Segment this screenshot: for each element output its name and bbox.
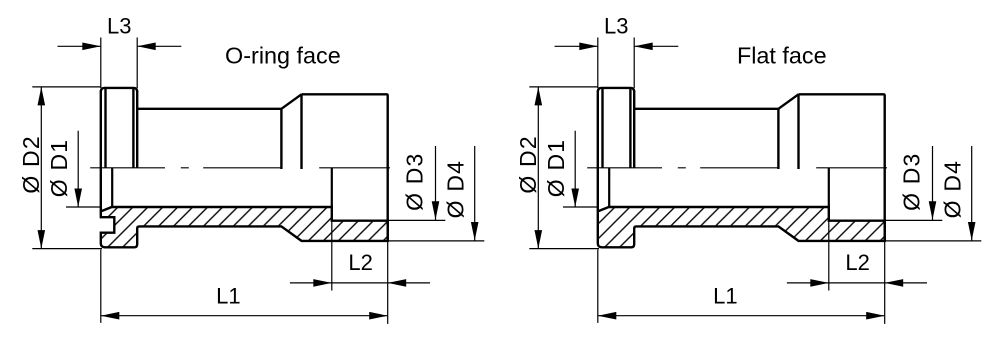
dimension D2 (32, 87, 102, 249)
flange left chamfer edge (601, 88, 603, 168)
svg-text:Ø D2: Ø D2 (515, 135, 541, 193)
neck top line (634, 108, 778, 110)
svg-text:Flat face: Flat face (737, 42, 827, 68)
flange right chamfer edge (132, 88, 134, 168)
svg-text:L3: L3 (604, 14, 628, 39)
flange right chamfer edge (629, 88, 631, 168)
svg-text:Ø D4: Ø D4 (442, 160, 468, 218)
dimension L2 (290, 221, 430, 324)
dimension D3 (388, 146, 445, 220)
svg-text:Ø D3: Ø D3 (898, 152, 924, 210)
dimension D4 (388, 146, 484, 241)
svg-text:L1: L1 (216, 284, 240, 309)
cylinder left edge (797, 94, 799, 169)
taper left edge (777, 109, 779, 169)
svg-text:Ø D3: Ø D3 (401, 152, 427, 210)
centerline (90, 167, 390, 169)
svg-text:L1: L1 (713, 284, 737, 309)
taper diagonal (281, 94, 301, 109)
svg-text:L2: L2 (845, 250, 869, 275)
counterbore circle edge (828, 168, 830, 207)
taper diagonal (778, 94, 798, 109)
counterbore circle edge (331, 168, 333, 207)
dimension L1 (101, 250, 388, 323)
svg-text:Ø D2: Ø D2 (18, 135, 44, 193)
svg-text:L3: L3 (107, 14, 131, 39)
section cut (hatched, flat face no groove) (598, 207, 885, 247)
dimension L1 (598, 250, 885, 323)
bore chamfer circle edge (608, 168, 610, 207)
cylinder top and right end (799, 94, 885, 241)
dimension L3 (58, 38, 182, 89)
cylinder top and right end (302, 94, 388, 241)
svg-text:Ø D4: Ø D4 (939, 160, 965, 218)
dimension D3 (885, 146, 942, 220)
flange left chamfer edge (104, 88, 106, 168)
svg-text:Ø D1: Ø D1 (46, 139, 72, 197)
bore chamfer circle edge (111, 168, 113, 207)
centerline (587, 167, 887, 169)
flange left face (100, 90, 102, 211)
section cut (hatched) (101, 207, 388, 247)
flange left face (597, 90, 599, 211)
neck top line (137, 108, 281, 110)
dimension L3 (555, 38, 679, 89)
taper left edge (280, 109, 282, 169)
dimension D1 (563, 131, 597, 207)
flange top edge (101, 88, 137, 92)
dimension L2 (787, 221, 927, 324)
flange right face (633, 90, 635, 167)
svg-text:O-ring face: O-ring face (225, 43, 341, 69)
dimension D1 (66, 131, 100, 207)
svg-text:L2: L2 (348, 250, 372, 275)
flange top edge (598, 88, 634, 92)
cylinder left edge (300, 94, 302, 169)
dimension D2 (529, 87, 599, 249)
svg-text:Ø D1: Ø D1 (543, 139, 569, 197)
dimension D4 (885, 146, 981, 241)
flange right face (136, 90, 138, 167)
